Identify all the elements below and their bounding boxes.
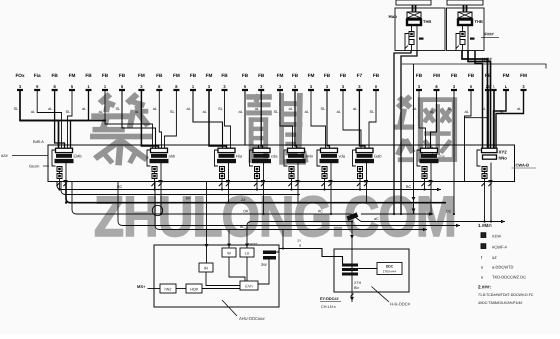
relay module A2b: [152, 172, 157, 179]
svg-text:H-Ik-DDC#: H-Ik-DDC#: [390, 302, 411, 307]
wire T17 to controller A5: [295, 90, 297, 148]
wire T25 down to bus: [453, 90, 455, 214]
svg-text:EMb: EMb: [74, 154, 83, 159]
watermark character LONG: [246, 93, 306, 165]
wire T14 to controller A4: [245, 90, 259, 148]
wire LU down: [246, 257, 248, 281]
wire top edge of right terminal box: [402, 64, 546, 69]
svg-text:3Y: 3Y: [297, 239, 302, 243]
svg-text:FM: FM: [138, 73, 145, 78]
svg-text:1769-###: 1769-###: [383, 270, 397, 274]
svg-text:THB: THB: [475, 19, 483, 24]
wire A3 output b: [228, 163, 230, 203]
svg-text:cda: cda: [271, 154, 278, 159]
svg-text:1.#M#:: 1.#M#:: [478, 223, 493, 228]
junction mark A7: [364, 180, 368, 182]
svg-text:hN2: hN2: [165, 288, 172, 292]
svg-text:HQ#: HQ#: [190, 288, 199, 292]
svg-text:FM: FM: [308, 73, 315, 78]
DDC panel enclosure: [48, 145, 515, 182]
svg-text:3W: 3W: [261, 263, 267, 267]
wire T23 to controller A8: [419, 90, 426, 148]
panel box PB2 top: [447, 0, 483, 5]
wire T20 to controller A7: [343, 90, 361, 148]
wire T15 to controller A4: [261, 90, 262, 148]
junction mark A4: [261, 180, 265, 182]
wire T19 to controller A6: [327, 90, 330, 148]
svg-text:MS+: MS+: [137, 284, 146, 289]
svg-text:SL: SL: [321, 106, 327, 111]
svg-text:XTH: XTH: [354, 281, 362, 285]
enclosure box fan unit 1: [395, 8, 445, 51]
wire T30 to controller A9: [493, 90, 495, 148]
terminal T10: [173, 73, 180, 90]
terminal T6: [102, 73, 109, 90]
wire T4 to controller A1: [68, 90, 73, 148]
tick marks A1: [56, 183, 59, 186]
riser from PB1: [412, 5, 414, 12]
svg-text:FB: FB: [51, 73, 58, 78]
wire T1 to controller A1: [20, 90, 59, 148]
terminal T20: [340, 73, 347, 90]
bus splice mark: [346, 212, 358, 220]
svg-text:BF: BF: [186, 197, 192, 201]
wire T18 to controller A6: [311, 90, 326, 148]
relay module A4b: [255, 172, 260, 179]
tick marks A8: [421, 183, 424, 186]
junction mark A6: [329, 180, 333, 182]
svg-text:L: L: [493, 85, 495, 89]
terminal T22: [373, 73, 380, 90]
wire A1 output b: [65, 163, 67, 203]
wire T21 to controller A7: [359, 90, 365, 148]
svg-text:XY2: XY2: [499, 150, 508, 155]
terminal T28: [503, 73, 510, 90]
svg-text:#C: #C: [240, 225, 245, 229]
wire T6 to controller A2: [105, 90, 153, 148]
terminal T24: [433, 73, 440, 90]
svg-text:Bin: Bin: [354, 286, 359, 290]
svg-text:#C: #C: [318, 209, 323, 213]
junction mark A5: [296, 180, 300, 182]
module LU: [240, 248, 254, 257]
controller A2 terminal strip: [147, 148, 169, 166]
tick marks A3: [219, 183, 222, 186]
wire A7 output b: [366, 163, 368, 203]
wire bus to AHU panel W: [228, 230, 230, 249]
bus line B4b: [361, 213, 433, 215]
svg-text:SL: SL: [448, 106, 454, 111]
junction mark A3: [226, 180, 230, 182]
svg-text:DDC: DDC: [386, 265, 394, 269]
wire A8 output a: [424, 179, 426, 190]
junction mark A1: [64, 180, 68, 182]
svg-text:FB: FB: [221, 73, 228, 78]
terminal T23: [416, 73, 423, 90]
terminal T4: [69, 73, 76, 90]
wire T13 to controller A3: [225, 90, 231, 148]
svg-text:#Z#: #Z#: [1, 153, 9, 158]
svg-text:DD##: DD##: [248, 243, 257, 247]
wire A5 output b: [297, 163, 299, 203]
svg-text:BC: BC: [406, 185, 412, 189]
bus line B4: [72, 182, 505, 222]
wire bus drop to output node: [282, 230, 284, 249]
svg-text:s: s: [481, 275, 483, 280]
relay module A3b: [220, 172, 225, 179]
bus line B7: [155, 182, 427, 230]
relay module A3a: [220, 167, 225, 172]
leader CWA-B: [512, 167, 537, 169]
wire U2 feed a to controller A9: [462, 51, 488, 149]
wire T22 to controller A7: [369, 90, 376, 148]
tick marks A4: [254, 183, 257, 186]
tick marks A2: [151, 183, 154, 186]
wire W to EVn: [229, 257, 245, 281]
controller A4 terminal strip: [250, 148, 272, 166]
svg-text:Gezm: Gezm: [29, 164, 39, 169]
svg-text:SL: SL: [170, 109, 176, 114]
controller A9 terminal strip: [477, 148, 497, 166]
terminal T8: [138, 73, 145, 90]
terminal T29: [520, 73, 527, 90]
wire U1 feed a to vertical bus: [394, 51, 411, 215]
leader Gezm: [43, 165, 49, 167]
svg-text:FB: FB: [468, 73, 475, 78]
controller A3 terminal strip: [215, 148, 237, 166]
wire A9 output b: [490, 163, 492, 222]
watermark character ZHU: [90, 94, 152, 165]
module hN2: [160, 284, 176, 293]
module DDC 1769: [377, 263, 402, 275]
terminal T18: [308, 73, 315, 90]
power supply bars: [263, 251, 276, 255]
terminal T21: [356, 73, 362, 90]
tick marks A7: [357, 183, 360, 186]
wire U2 feed c to controller A9: [475, 51, 483, 149]
collector line left group: [20, 120, 106, 122]
DDC station enclosure: [334, 249, 409, 292]
svg-text:FM: FM: [69, 73, 76, 78]
relay module A9a: [482, 167, 487, 172]
module IFI: [199, 263, 213, 272]
terminal T26: [468, 73, 475, 90]
controller A7 terminal strip: [353, 148, 375, 166]
svg-text:EVn: EVn: [245, 285, 252, 289]
svg-text:hNo: hNo: [499, 156, 508, 161]
svg-text:FM: FM: [520, 73, 527, 78]
relay module A8a: [422, 167, 427, 172]
wire T2 to controller A1: [37, 90, 61, 148]
svg-text:FB: FB: [190, 73, 197, 78]
relay module A5b: [289, 172, 294, 179]
svg-text:SL: SL: [370, 109, 376, 114]
riser from PB2: [463, 5, 465, 12]
svg-text:FM: FM: [173, 73, 180, 78]
terminal T7: [119, 73, 126, 90]
relay module A1a: [57, 167, 62, 172]
relay module A7a: [358, 167, 363, 172]
svg-text:LU: LU: [245, 252, 250, 256]
svg-text:FB: FB: [451, 73, 458, 78]
relay module A9b: [482, 172, 487, 179]
terminal T27: [485, 73, 492, 90]
svg-text:FOx: FOx: [15, 73, 25, 78]
wire hN2 to HQ: [176, 288, 186, 290]
leader line F sensor: [481, 36, 499, 38]
damper valve symbol U2: [458, 12, 472, 25]
damper valve symbol U1: [407, 12, 421, 25]
svg-text:s: s: [481, 265, 483, 270]
AHU control panel enclosure: [154, 245, 279, 307]
svg-text:F7: F7: [357, 73, 363, 78]
wire IFI to EVn: [206, 272, 240, 286]
svg-text:2.###:: 2.###:: [478, 285, 491, 290]
wire T24 to controller A8: [431, 90, 437, 148]
wire A2 output a: [154, 179, 156, 190]
wire T3 to controller A1: [55, 90, 65, 148]
controller A5 terminal strip: [284, 148, 306, 166]
svg-text:SL: SL: [116, 106, 122, 111]
svg-text:#CWF-#: #CWF-#: [492, 245, 508, 250]
terminal T30 aux: [491, 85, 496, 91]
wire A8 output b: [430, 163, 432, 215]
wire panel output a: [276, 249, 343, 264]
relay module A8b: [422, 172, 427, 179]
svg-text:FM: FM: [206, 73, 213, 78]
relay module A2a: [152, 167, 157, 172]
wire A3 output a: [221, 179, 223, 190]
svg-text:TKD-DDCCWZ.DC: TKD-DDCCWZ.DC: [492, 275, 526, 280]
wire T9 to controller A2: [159, 90, 161, 148]
tick marks A6: [321, 183, 324, 186]
svg-text:FB: FB: [340, 73, 347, 78]
junction LU drop: [245, 244, 249, 248]
tick marks A9: [481, 183, 484, 186]
wire T5 to controller A1: [71, 90, 89, 148]
relay module A1b: [57, 172, 62, 179]
bus line B1: [57, 182, 441, 190]
enclosure box fan unit 2: [447, 8, 485, 51]
leader left edge node: [12, 155, 48, 157]
svg-text:EY-DDC##: EY-DDC##: [320, 297, 339, 301]
svg-text:SL: SL: [218, 106, 224, 111]
wire T16 to controller A5: [280, 90, 293, 148]
relay module A6a: [322, 167, 327, 172]
panel box PB1 top: [396, 0, 431, 5]
svg-text:FB: FB: [292, 73, 299, 78]
wire A7 output a: [359, 179, 361, 190]
legend row 5: [481, 275, 526, 280]
svg-text:she: she: [439, 154, 446, 159]
controller A1 terminal strip: [52, 148, 74, 166]
module HQ: [186, 284, 202, 293]
legend row 1: [481, 233, 502, 239]
svg-text:4#DC:T3#8#D/LK/A%P1/4#: 4#DC:T3#8#D/LK/A%P1/4#: [478, 301, 522, 305]
svg-text:FB: FB: [242, 73, 249, 78]
svg-text:FM: FM: [277, 73, 284, 78]
wire bus to AHU panel IFI: [206, 182, 208, 264]
relay module A5a: [289, 167, 294, 172]
svg-text:F###: F###: [485, 32, 495, 37]
svg-text:FB: FB: [119, 73, 126, 78]
wire T26 down to panel: [465, 90, 472, 182]
wire T10 to controller A2: [165, 90, 177, 148]
svg-text:SL: SL: [14, 106, 20, 111]
svg-text:Hab: Hab: [389, 14, 398, 19]
bus line B6: [118, 182, 460, 226]
watermark character WANG: [394, 96, 454, 162]
junction mark A9: [489, 180, 493, 182]
legend row 4: [481, 265, 513, 270]
actuator module U1: [405, 25, 424, 51]
module EVn: [240, 281, 258, 290]
wire T11 to controller A3: [193, 90, 223, 148]
wire HQ to EVn: [202, 288, 240, 290]
wire U1 feed b to vertical bus: [401, 51, 417, 215]
legend row 2: [481, 244, 508, 250]
terminal T17: [292, 73, 299, 90]
terminal T11: [190, 73, 197, 90]
terminal T5: [85, 73, 92, 90]
wire T29 to controller A9: [496, 90, 524, 148]
svg-text:#Z: #Z: [492, 255, 497, 260]
junction mark A2: [159, 180, 163, 182]
relay module A4a: [255, 167, 260, 172]
wire A9 output a: [484, 179, 486, 222]
svg-text:#1h#: #1h#: [492, 234, 502, 239]
tick marks A5: [288, 183, 291, 186]
svg-text:DC: DC: [446, 209, 452, 213]
svg-text:Fia: Fia: [34, 73, 41, 78]
wire T8 to controller A2: [141, 90, 158, 148]
svg-text:Gab: Gab: [374, 154, 382, 159]
bus line B3: [66, 182, 446, 203]
terminal T19: [324, 73, 331, 90]
svg-text:FB: FB: [156, 73, 163, 78]
controller A8 terminal strip: [417, 148, 439, 166]
svg-text:ANn: ANn: [306, 154, 314, 159]
terminal T25: [451, 73, 458, 90]
svg-text:SL: SL: [66, 109, 72, 114]
terminal T13: [221, 73, 228, 90]
svg-text:71.8:TCD##WTD#T-DDCW#-D.FC: 71.8:TCD##WTD#T-DDCW#-D.FC: [478, 293, 534, 297]
svg-text:Hia: Hia: [236, 154, 243, 159]
terminal T15: [258, 73, 265, 90]
svg-text:ahb: ahb: [169, 154, 176, 159]
svg-text:W: W: [227, 252, 231, 256]
wire T28 to controller A9: [494, 90, 507, 148]
svg-text:a-DDCWTD: a-DDCWTD: [492, 265, 513, 270]
wire branch header: [465, 117, 488, 119]
wire A2 output b: [160, 163, 162, 215]
actuator module U2: [456, 25, 475, 51]
terminal T14: [242, 73, 249, 90]
wire U2 feed b to controller A9: [468, 51, 491, 149]
legend row 3: [481, 255, 497, 260]
leader AHU-DDC: [222, 300, 237, 316]
svg-text:FB: FB: [102, 73, 109, 78]
bus line B5 to module LU: [247, 222, 351, 249]
junction mark A8: [429, 180, 433, 182]
wire A6 output a: [324, 179, 326, 190]
svg-text:vda: vda: [339, 154, 346, 159]
wire EVn to power bars: [258, 260, 269, 285]
controller A6 terminal strip: [317, 148, 339, 166]
svg-text:IFI: IFI: [204, 267, 208, 271]
svg-text:FM: FM: [433, 73, 440, 78]
wire bus to DDC station: [351, 222, 353, 303]
svg-text:AHU-DDC###: AHU-DDC###: [239, 316, 265, 321]
terminal T3: [51, 73, 58, 90]
module W: [222, 248, 236, 257]
wire bars to DDC: [358, 268, 377, 270]
svg-text:SL: SL: [274, 109, 280, 114]
svg-text:OK: OK: [243, 210, 249, 214]
svg-text:THB: THB: [423, 19, 431, 24]
relay module A6b: [322, 172, 327, 179]
wire A4 output a: [256, 179, 258, 190]
svg-text:BC: BC: [117, 185, 123, 189]
svg-text:aC: aC: [374, 217, 379, 221]
svg-text:FB: FB: [324, 73, 331, 78]
svg-text:FM: FM: [503, 73, 510, 78]
bus line B2: [61, 182, 300, 195]
wire A1 output a: [59, 179, 61, 190]
svg-text:FB: FB: [258, 73, 265, 78]
svg-text:FB: FB: [85, 73, 92, 78]
svg-text:CWA-B: CWA-B: [516, 163, 530, 168]
terminal T2: [34, 73, 41, 90]
wire T27 to controller A9: [487, 90, 489, 148]
terminal T16: [277, 73, 284, 90]
wire A6 output b: [330, 163, 332, 215]
wire A5 output a: [291, 179, 293, 190]
svg-text:Bd0-A: Bd0-A: [33, 139, 44, 144]
wire T12 to controller A3: [209, 90, 227, 148]
DDC terminal bars: [342, 264, 358, 267]
terminal T9: [156, 73, 163, 90]
svg-text:CH-LN-x: CH-LN-x: [321, 305, 336, 309]
terminal T12: [206, 73, 213, 90]
terminal T1: [15, 73, 25, 90]
svg-text:FB: FB: [416, 73, 423, 78]
leader H-Ik-DDC: [372, 287, 390, 303]
riser from horizontal collector to bus: [413, 64, 415, 214]
relay module A7b: [358, 172, 363, 179]
svg-text:FB: FB: [373, 73, 380, 78]
wire A4 output b: [263, 163, 265, 215]
wire T7 to controller A2: [122, 90, 156, 148]
junction hop circle: [152, 205, 162, 215]
